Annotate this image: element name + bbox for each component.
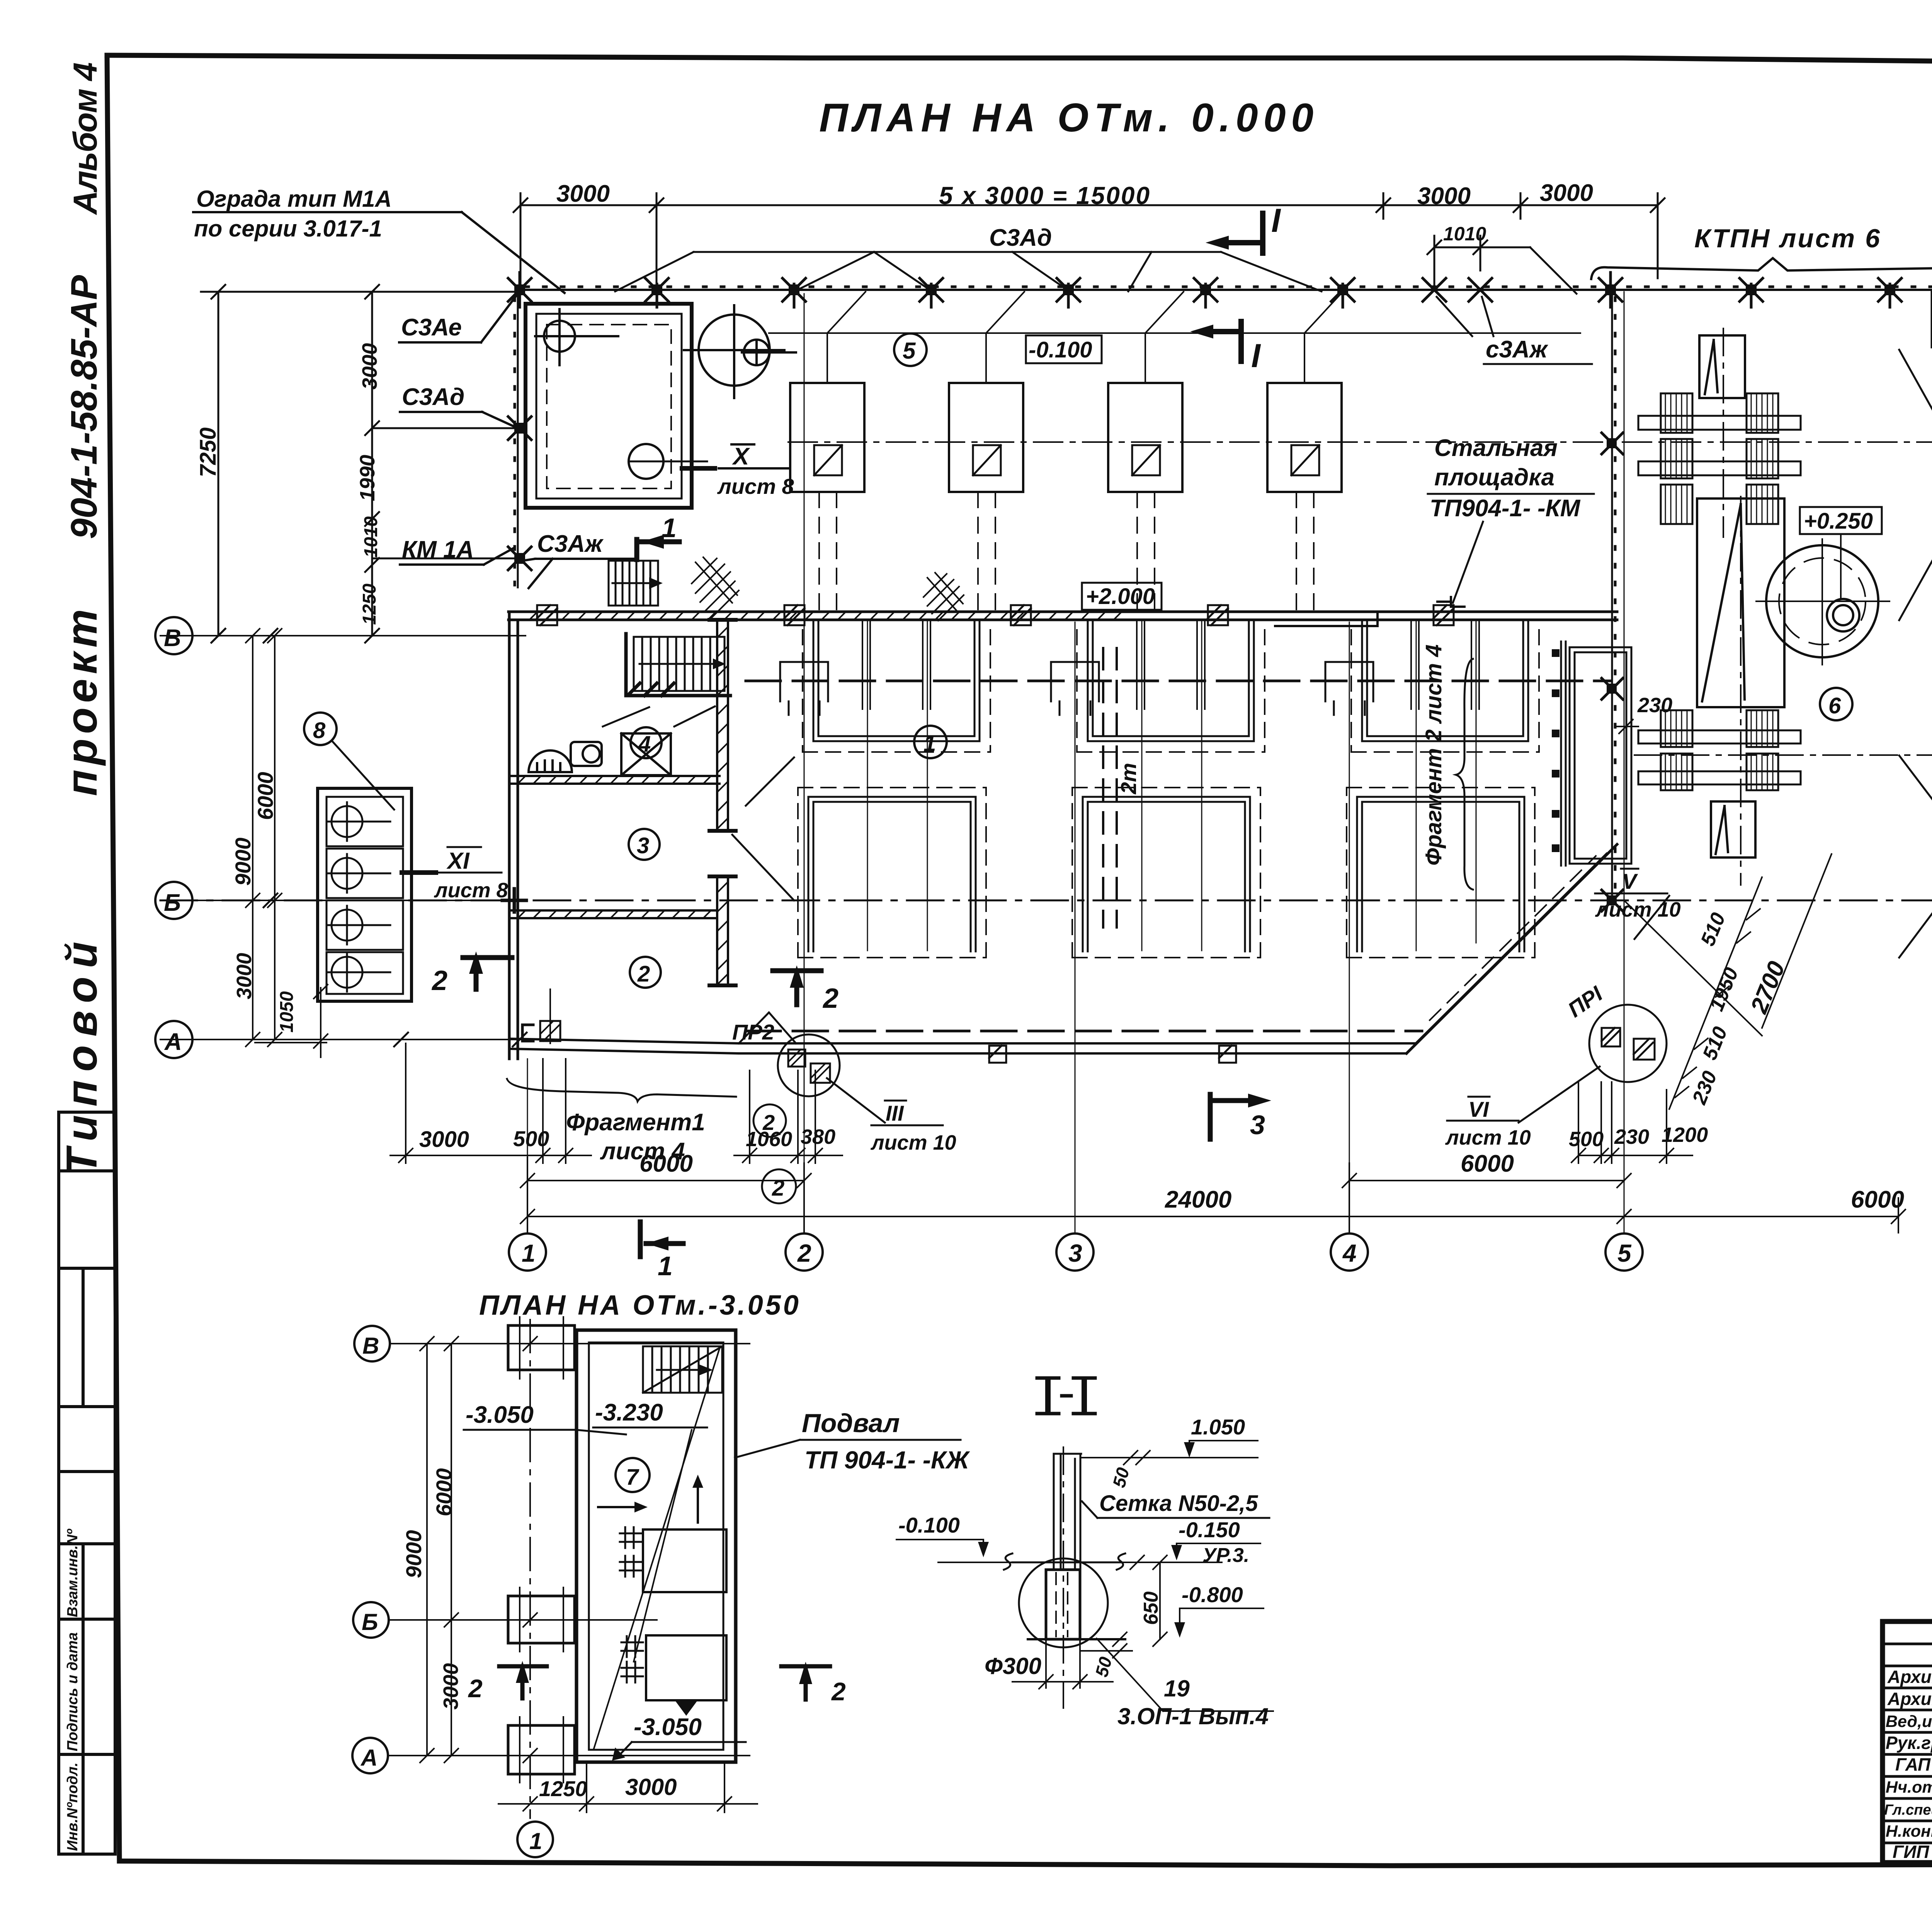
axis B(rus B) line left (160, 900, 509, 901)
section centre dashdot (1063, 1447, 1064, 1708)
svg-text:В: В (164, 625, 181, 652)
svg-text:2т: 2т (1116, 763, 1141, 795)
axis circle A (155, 1021, 192, 1058)
svg-text:КТПН лист 6: КТПН лист 6 (1694, 224, 1881, 253)
section title I-I (1048, 1380, 1084, 1411)
lower axis 1 vertical (529, 1320, 531, 1818)
basement equipment 2 (646, 1635, 726, 1700)
svg-text:3: 3 (1068, 1239, 1082, 1267)
svg-text:2: 2 (637, 961, 650, 987)
section mark 2 mid (773, 971, 821, 1005)
svg-text:4: 4 (1342, 1239, 1357, 1267)
proem 2 circle near PR2 (753, 1104, 786, 1137)
svg-text:ГИП: ГИП (1893, 1842, 1929, 1862)
svg-text:с3Аж: с3Аж (1486, 336, 1549, 363)
annex equipment circle 2 (629, 444, 663, 479)
svg-text:6000: 6000 (1461, 1150, 1514, 1177)
level label +0.250 (1800, 507, 1882, 534)
horizontal centre dashdot of ktpn (1634, 754, 1932, 756)
svg-text:лист 8: лист 8 (434, 879, 508, 902)
axis circle B (155, 882, 192, 919)
big circle tank (1766, 545, 1878, 657)
svg-text:7250: 7250 (196, 427, 221, 477)
svg-text:3000: 3000 (1540, 180, 1593, 206)
section mark 1 upper (637, 539, 679, 560)
svg-text:X: X (732, 443, 750, 470)
svg-text:230: 230 (1637, 694, 1672, 717)
svg-text:3.ОП-1 Вып.4: 3.ОП-1 Вып.4 (1117, 1703, 1269, 1729)
svg-text:6000: 6000 (432, 1468, 456, 1516)
vertical guides below squares (819, 492, 1314, 612)
svg-text:I: I (1271, 202, 1281, 239)
machine hall upper dashed foundation edge (746, 680, 1611, 682)
level label +2.000 (1082, 583, 1162, 610)
svg-text:500: 500 (1569, 1128, 1604, 1151)
svg-text:ТП 904-1- -КЖ: ТП 904-1- -КЖ (804, 1446, 970, 1474)
svg-text:С3Ад: С3Ад (402, 384, 464, 410)
svg-text:ПЛАН НА ОТм.-3.050: ПЛАН НА ОТм.-3.050 (479, 1290, 801, 1321)
dim 500/230/1200 right (1571, 1082, 1692, 1163)
svg-text:24000: 24000 (1165, 1186, 1231, 1213)
III list 10 label (871, 1101, 943, 1125)
svg-text:2: 2 (762, 1110, 775, 1135)
svg-text:6000: 6000 (1851, 1186, 1904, 1213)
section mark 2 left (463, 958, 512, 989)
axis circles 1-5 bottom (509, 1233, 1643, 1271)
svg-text:5: 5 (1617, 1239, 1632, 1267)
svg-text:ТП904-1- -КМ: ТП904-1- -КМ (1430, 495, 1581, 522)
svg-text:1990: 1990 (356, 455, 379, 501)
room 5 circle (894, 333, 927, 366)
svg-text:лист 8: лист 8 (717, 474, 794, 498)
svg-text:С3Аж: С3Аж (537, 531, 604, 557)
vertical hatched wall separating hall (717, 620, 728, 985)
svg-text:Нч.отд.: Нч.отд. (1886, 1778, 1932, 1797)
dim line 6000 far right (1624, 1198, 1905, 1233)
big stairs room4 (634, 637, 724, 691)
hall bottom boundary walls (739, 1043, 1416, 1053)
svg-text:Ф300: Ф300 (985, 1653, 1041, 1679)
air receiver big circle (684, 305, 796, 398)
fence left vertical (517, 290, 519, 587)
hatch patch 1 (692, 557, 739, 618)
svg-text:лист 10: лист 10 (870, 1131, 956, 1154)
svg-text:9000: 9000 (231, 837, 255, 886)
rooms 3/2 divider hatched wall (509, 910, 717, 918)
footing (1046, 1570, 1080, 1639)
svg-text:Н.контр.: Н.контр. (1886, 1822, 1932, 1841)
platform squares row (air receivers supports) (790, 383, 1342, 492)
svg-text:Типовой: Типовой (58, 933, 106, 1175)
svg-text:7: 7 (626, 1465, 639, 1490)
ground line with breaks (1004, 1553, 1125, 1570)
steel platform bracket (1275, 612, 1378, 626)
svg-text:6: 6 (1828, 693, 1841, 718)
svg-text:Стальная: Стальная (1434, 435, 1558, 461)
axis vertical faint lines (527, 292, 1624, 1233)
bottom dim line 3000/500 (390, 1043, 591, 1163)
long thin verticals in hall (867, 620, 1476, 951)
svg-text:2: 2 (831, 1677, 846, 1706)
svg-text:-0.100: -0.100 (898, 1513, 960, 1537)
room 6 circle (1820, 688, 1852, 720)
svg-text:650: 650 (1140, 1591, 1162, 1625)
svg-text:Вед,инж: Вед,инж (1886, 1712, 1932, 1731)
lower axis B line (389, 1619, 657, 1621)
machine hall axis B dash-dot line (160, 900, 1932, 902)
svg-text:500: 500 (513, 1126, 549, 1151)
rotated dims near pump room (1688, 910, 1790, 1108)
X list 8 label (719, 444, 790, 468)
svg-text:площадка: площадка (1434, 464, 1554, 491)
room2 bottom wall (509, 1039, 739, 1053)
room 1 number circle (914, 726, 947, 758)
left dims 9000/6000/3000/1050 (246, 629, 328, 1057)
basement equipment 1 (643, 1529, 726, 1592)
svg-text:по серии 3.017-1: по серии 3.017-1 (194, 216, 382, 242)
svg-text:Фрагмент1: Фрагмент1 (566, 1109, 705, 1136)
svg-text:С3Ад: С3Ад (989, 225, 1052, 251)
svg-text:19: 19 (1164, 1676, 1190, 1701)
dim line 24000 (520, 1157, 1631, 1233)
basement long diagonal leader (594, 1349, 719, 1750)
svg-text:Б: Б (164, 890, 181, 916)
svg-text:2: 2 (772, 1176, 784, 1201)
level label -0.100 (1026, 335, 1102, 363)
stack above transformers (1699, 335, 1745, 398)
svg-text:+0.250: +0.250 (1804, 509, 1873, 534)
wall piers on top wall (537, 605, 1454, 625)
svg-text:Подвал: Подвал (802, 1409, 900, 1438)
left dim verticals (201, 285, 520, 643)
svg-text:3000: 3000 (1417, 183, 1471, 209)
axis circle V (155, 617, 192, 654)
svg-text:9000: 9000 (401, 1530, 426, 1578)
stack below group2 (1711, 801, 1755, 857)
svg-text:Гл.спец.ТО: Гл.спец.ТО (1884, 1802, 1932, 1818)
room 4 wc fixtures (529, 742, 602, 772)
svg-text:Инв.Nºподл.: Инв.Nºподл. (65, 1763, 81, 1851)
svg-text:3: 3 (637, 833, 649, 858)
axis B(rus V) line left (160, 635, 526, 636)
chevron marks right (1899, 350, 1932, 958)
svg-text:1: 1 (662, 513, 677, 543)
svg-text:1050: 1050 (277, 991, 297, 1033)
lower foundation pads (508, 1325, 575, 1774)
room 4 cabinet X box (621, 733, 671, 775)
svg-text:Подпись и дата: Подпись и дата (65, 1632, 81, 1751)
svg-text:3000: 3000 (556, 180, 610, 207)
svg-text:3: 3 (1250, 1110, 1265, 1140)
svg-text:1200: 1200 (1662, 1123, 1708, 1147)
svg-text:А: А (164, 1029, 182, 1055)
lower dims 9000 6000 3000 (420, 1337, 537, 1763)
svg-text:ПР2: ПР2 (732, 1020, 774, 1044)
room 4 number circle (631, 727, 662, 758)
svg-text:В: В (362, 1333, 379, 1359)
fence line top (518, 289, 1932, 291)
svg-text:-0.100: -0.100 (1029, 337, 1092, 362)
right end posts line with plates (1561, 641, 1631, 866)
section mark 1 bottom (640, 1222, 683, 1257)
svg-text:Архит.: Архит. (1887, 1689, 1932, 1709)
section mark 3 bottom (1210, 1094, 1248, 1139)
svg-text:6000: 6000 (639, 1150, 693, 1177)
basement arrows (598, 1506, 638, 1508)
svg-text:230: 230 (1614, 1125, 1649, 1148)
50 dim top (1124, 1451, 1150, 1465)
svg-text:1: 1 (529, 1828, 542, 1854)
svg-text:3000: 3000 (419, 1127, 469, 1152)
svg-text:2: 2 (797, 1239, 811, 1267)
svg-text:2: 2 (468, 1674, 483, 1703)
dim 650 (1153, 1555, 1167, 1646)
camera unit 8 block (318, 788, 412, 1001)
svg-text:6000: 6000 (253, 772, 277, 820)
basement outline (577, 1330, 736, 1762)
transformer group 2 (1661, 710, 1778, 790)
svg-text:Альбом 4: Альбом 4 (67, 63, 104, 215)
svg-text:проект: проект (58, 604, 106, 796)
annex building top-left (pump rooms) (526, 304, 692, 508)
svg-text:1: 1 (522, 1239, 536, 1267)
section wall post (1054, 1454, 1081, 1570)
transformer group 1 (1661, 393, 1778, 524)
svg-text:лист 10: лист 10 (1445, 1126, 1531, 1149)
svg-text:904-1-58.85-АР: 904-1-58.85-АР (63, 275, 105, 539)
VI list 10 label (1447, 1097, 1519, 1121)
svg-text:8: 8 (313, 718, 326, 743)
svg-text:-3.050: -3.050 (466, 1402, 534, 1428)
door leader from room3 (732, 757, 794, 900)
left margin rotated album text (58, 63, 106, 1175)
svg-text:1.050: 1.050 (1191, 1415, 1245, 1439)
room 2 number circle (630, 957, 661, 988)
svg-text:2: 2 (822, 983, 838, 1014)
room 3 number circle (629, 829, 660, 860)
svg-text:1010: 1010 (1443, 223, 1486, 245)
crane rail 2t dashed (1103, 648, 1117, 927)
svg-text:VI: VI (1468, 1097, 1489, 1121)
svg-text:ПЛАН НА ОТм. 0.000: ПЛАН НА ОТм. 0.000 (819, 95, 1319, 140)
svg-text:1250: 1250 (359, 584, 380, 625)
title block (1883, 1621, 1932, 1863)
basement stair (643, 1346, 722, 1393)
svg-text:Сетка N50-2,5: Сетка N50-2,5 (1099, 1491, 1258, 1516)
svg-text:III: III (886, 1101, 904, 1125)
left margin stamp strip table (59, 1112, 115, 1854)
dim line 6000 right (1342, 1163, 1631, 1233)
lower bottom dims 1250 3000 (498, 1762, 757, 1812)
svg-text:3000: 3000 (625, 1774, 677, 1800)
bottom dim 1060/380 (734, 1070, 842, 1163)
lower section marks 2 (499, 1666, 547, 1698)
svg-text:УР.3.: УР.3. (1202, 1544, 1249, 1567)
axis A line left (160, 1039, 527, 1040)
svg-text:1: 1 (658, 1251, 673, 1281)
svg-text:5 x 3000 = 15000: 5 x 3000 = 15000 (939, 182, 1151, 209)
svg-text:А: А (360, 1745, 378, 1771)
svg-text:+2.000: +2.000 (1086, 584, 1155, 609)
svg-text:3000: 3000 (439, 1663, 463, 1710)
axis 2 circle small under dim (762, 1169, 796, 1203)
building left wall (509, 612, 518, 1059)
horizontal centre dash-dot through platforms (788, 441, 1932, 443)
room 7 circle (616, 1458, 650, 1492)
fence posts (508, 272, 1901, 307)
dim line 6000 left (520, 1174, 811, 1188)
lower axis V line (390, 1343, 750, 1344)
svg-text:ГАП: ГАП (1895, 1754, 1931, 1774)
machine hall pit bays (808, 620, 1528, 951)
diagonal wall to pump room (1406, 844, 1617, 1053)
section mark I top (1229, 213, 1263, 253)
svg-text:I: I (1251, 337, 1261, 374)
pier hatched at bottom left (540, 1021, 560, 1041)
svg-text:1250: 1250 (539, 1776, 587, 1801)
title block signature texts (1884, 1665, 1932, 1862)
svg-text:Взам.инв.Nº: Взам.инв.Nº (65, 1528, 81, 1617)
svg-text:5: 5 (903, 338, 916, 364)
fence top dimension line 5x3000=15000 (514, 193, 1665, 294)
svg-text:XI: XI (446, 848, 470, 874)
room4 bottom hatched wall (509, 776, 719, 784)
hatch patch 2 (923, 573, 964, 621)
KTPN boundary vertical (1611, 292, 1613, 900)
annex equipment circle 1 (535, 309, 618, 365)
svg-text:-0.150: -0.150 (1179, 1518, 1240, 1542)
building top wall (double with hatch) (509, 612, 1617, 620)
svg-text:1010: 1010 (361, 516, 381, 558)
svg-text:-3.050: -3.050 (634, 1714, 702, 1740)
svg-text:Фрагмент 2 лист 4: Фрагмент 2 лист 4 (1421, 645, 1446, 866)
leaders to wardrobe from frag note (603, 706, 715, 726)
svg-text:Архит.: Архит. (1887, 1667, 1932, 1687)
witness verticals of platform squares to top (769, 292, 1580, 383)
junction squares along hall bottom (989, 1046, 1236, 1063)
section mark I lower (1213, 322, 1241, 361)
svg-text:3000: 3000 (358, 343, 381, 390)
svg-text:3000: 3000 (233, 953, 256, 999)
svg-text:380: 380 (801, 1125, 835, 1148)
svg-text:-0.800: -0.800 (1182, 1582, 1243, 1607)
svg-text:Б: Б (362, 1609, 378, 1635)
XI list 8 label (436, 847, 502, 873)
svg-text:-3.230: -3.230 (595, 1399, 663, 1426)
svg-text:С3Ае: С3Ае (401, 314, 462, 341)
svg-text:1: 1 (923, 731, 936, 756)
svg-text:Ограда тип М1А: Ограда тип М1А (196, 186, 392, 212)
V list 10 label (1595, 869, 1667, 893)
svg-text:2: 2 (431, 965, 447, 996)
tall tank (1697, 498, 1784, 707)
svg-text:Рук.гр.: Рук.гр. (1886, 1733, 1932, 1753)
lower axis A line (389, 1755, 750, 1756)
50 dim bottom (1080, 1632, 1132, 1658)
camera 8 label circle (304, 713, 337, 745)
stairs small (609, 561, 658, 606)
